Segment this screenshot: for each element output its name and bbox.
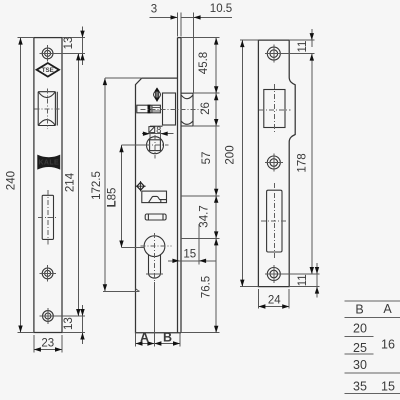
svg-text:24: 24 [268,294,281,306]
svg-text:76.5: 76.5 [201,276,213,298]
dimension 24 [258,289,289,309]
svg-text:240: 240 [5,171,17,190]
svg-text:11: 11 [297,41,309,53]
dimension 13 top [62,27,85,66]
dimension 11 top [283,29,315,54]
dimension 240 [5,38,34,333]
lock case outline with chamfer [136,78,178,333]
strike screw hole top [265,45,283,63]
svg-text:A: A [383,302,392,316]
svg-text:KALE: KALE [38,160,59,167]
svg-text:TSE: TSE [42,67,54,74]
svg-text:3: 3 [151,3,157,15]
strike plate outline with lip [258,40,295,287]
strike screw hole middle [265,154,283,172]
svg-text:25: 25 [353,341,367,355]
dimension 45.8 [198,38,218,94]
dimension 23 [34,335,62,353]
latch spring pin [137,105,203,114]
dimension Ø8 with arrows [142,125,174,140]
handle hub [145,135,169,159]
dimension 26 [200,93,218,126]
TSE logo [37,63,59,77]
strike screw hole bottom [265,265,283,283]
svg-text:45.8: 45.8 [198,52,210,74]
bottom step extension with tick [103,289,139,292]
dimension L85 [107,145,147,247]
roller bolt [34,88,61,129]
latch tail inside case [163,93,176,125]
small diamond mark [136,181,146,191]
svg-text:10.5: 10.5 [210,3,232,15]
svg-text:178: 178 [297,153,309,172]
svg-text:L85: L85 [107,188,119,208]
dimension 172.5 [91,78,142,291]
dimension 57 [201,126,218,196]
dimension 178 [297,54,315,274]
svg-text:34.7: 34.7 [199,205,211,227]
latch cutout [259,84,291,133]
dimension 34.7 [199,196,219,239]
screw hole bottom [40,308,56,324]
svg-text:16: 16 [381,337,395,351]
snib cam shape [142,191,167,203]
small slot [145,214,166,220]
screw hole top [39,45,55,61]
svg-text:172.5: 172.5 [91,171,103,200]
svg-text:23: 23 [41,337,54,349]
latch bolt head [181,93,193,126]
dimensions A and B [136,331,181,347]
faceplate side (two lines) [178,38,182,333]
euro cylinder hole [141,233,172,283]
svg-text:30: 30 [353,358,367,372]
deadbolt slot [38,190,58,244]
svg-text:15: 15 [183,248,196,260]
svg-text:13: 13 [63,317,75,330]
screw hole middle [39,265,55,281]
svg-text:13: 13 [63,37,75,50]
svg-text:20: 20 [353,321,367,335]
KALE logo [37,155,60,170]
dimension 200 [225,40,259,287]
svg-text:A: A [140,331,149,345]
svg-text:15: 15 [381,379,395,393]
svg-text:B: B [355,302,363,316]
latch guide line [150,125,163,127]
reversible latch symbol [154,87,161,101]
dimension 15 [168,224,216,265]
svg-text:11: 11 [297,274,309,286]
right side extension lines [181,38,220,333]
dimension 13 bottom [62,305,85,344]
dimension 11 bottom [283,263,320,298]
svg-text:35: 35 [353,379,367,393]
dimension 3 / 10.5 top [150,3,233,93]
svg-text:57: 57 [201,152,213,165]
dimension 76.5 [201,238,219,332]
cylinder centerline to A/B [153,282,155,347]
svg-text:214: 214 [65,172,77,192]
dimension 214 [56,53,85,316]
svg-text:26: 26 [200,102,212,115]
svg-text:200: 200 [225,145,237,164]
svg-text:B: B [163,331,172,345]
faceplate outline [34,38,62,333]
deadbolt cutout [261,183,288,259]
